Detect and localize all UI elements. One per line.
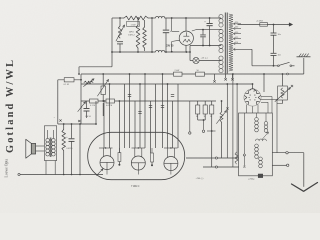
ground — [303, 58, 305, 74]
wire — [112, 17, 124, 19]
terminal — [203, 120, 205, 130]
mains switch S1 — [252, 65, 278, 67]
junction — [209, 17, 211, 19]
wire terminal E — [272, 164, 286, 166]
IF coil L5 (horizontal) — [256, 139, 267, 141]
resistor R14 — [196, 105, 200, 114]
wire bus 3 — [81, 100, 216, 102]
capacitor C5 — [273, 25, 275, 34]
wire — [102, 103, 104, 116]
tube V2 pins — [103, 148, 105, 157]
wire resistor stub — [58, 79, 81, 81]
tube V3 — [131, 156, 145, 170]
capacitor C7b small — [225, 74, 227, 78]
junction — [80, 79, 82, 81]
wire — [221, 101, 223, 112]
wire filament top — [171, 18, 173, 31]
capacitor C4 — [202, 30, 204, 35]
resistor R10 — [90, 99, 99, 103]
wire — [282, 74, 284, 86]
capacitor C13 small — [149, 105, 152, 107]
capacitor C6 — [273, 35, 275, 53]
potentiometer R9 — [102, 74, 104, 86]
dial lamp LA1 — [193, 57, 199, 63]
resistor R8 trimmer — [84, 81, 93, 84]
resistor R16 — [210, 105, 214, 114]
value label 1kW boxed — [127, 22, 140, 27]
wire — [263, 74, 265, 92]
junction — [63, 123, 65, 125]
capacitor C1 — [117, 41, 123, 43]
junction — [63, 174, 65, 176]
IF coil L4 — [264, 122, 268, 126]
wire — [192, 30, 196, 31]
choke L2 — [156, 50, 165, 52]
transformer T1 core — [224, 13, 226, 74]
tick — [59, 119, 61, 121]
capacitor C10 electrolytic — [118, 153, 121, 162]
capacitor C2 electrolytic — [165, 18, 167, 30]
capacitor C3 electrolytic — [209, 18, 211, 23]
wire — [95, 101, 97, 124]
fuse Si1 — [260, 23, 268, 27]
resistor R18 — [235, 152, 238, 164]
wire main bus — [81, 73, 304, 75]
wire — [103, 101, 105, 148]
wire — [129, 74, 131, 148]
wire — [238, 24, 260, 26]
wire — [276, 99, 278, 152]
resistor R6 — [174, 72, 183, 76]
resistor R13 — [63, 124, 65, 130]
tick — [78, 120, 80, 122]
wire — [256, 113, 258, 118]
capacitor C16 small — [171, 94, 174, 96]
transformer T1 primary winding section 2 — [219, 29, 223, 33]
output transformer T2 box — [44, 126, 56, 161]
junction — [273, 24, 275, 26]
capacitor C8 small — [232, 74, 234, 78]
junction — [226, 83, 228, 85]
junction — [137, 17, 139, 19]
chassis outline racetrack — [88, 132, 185, 179]
wire — [36, 145, 45, 147]
wire — [165, 17, 221, 19]
terminal — [287, 73, 289, 75]
IF transformer can outline — [239, 113, 273, 176]
capacitor C11 electrolytic — [151, 153, 154, 162]
wire bottom left bus — [19, 174, 103, 176]
wire — [197, 114, 199, 120]
wire terminal A — [272, 152, 304, 154]
wire — [303, 153, 305, 187]
junction — [111, 51, 113, 53]
AVC arrow — [97, 169, 104, 176]
wire inside can — [243, 113, 245, 166]
wire — [150, 101, 152, 153]
capacitor C17 small — [138, 111, 141, 113]
resistor R7 — [196, 72, 205, 76]
terminal — [18, 173, 20, 175]
wire — [226, 84, 228, 158]
capacitor C7 small — [214, 74, 216, 80]
resistor R11 — [106, 99, 115, 103]
wire — [199, 60, 221, 62]
wire — [148, 17, 155, 19]
wire — [124, 84, 126, 148]
junction — [273, 65, 275, 67]
resistor R1 — [124, 16, 148, 20]
taps with voltage labels — [233, 23, 241, 25]
wire — [165, 51, 187, 53]
tube V4 pins — [166, 148, 168, 157]
wire — [211, 131, 213, 167]
mains arrow — [289, 23, 292, 26]
wire — [177, 84, 179, 148]
wire — [232, 74, 234, 167]
wire — [112, 51, 155, 53]
tube V1 rectifier — [179, 31, 193, 45]
wire socket top — [252, 84, 254, 89]
loudspeaker LS — [31, 143, 35, 154]
wire — [162, 74, 164, 148]
tube V2 — [100, 156, 114, 170]
wire — [111, 18, 113, 67]
wire — [251, 49, 253, 66]
wire — [167, 84, 169, 148]
terminal — [189, 101, 191, 132]
IF coil L7 — [259, 157, 263, 161]
transformer T1 primary winding section 4 — [219, 56, 223, 60]
wire bus 2 — [81, 83, 252, 85]
wire — [58, 123, 96, 125]
resistor R5 — [64, 78, 74, 82]
wire — [172, 101, 174, 148]
wire socket right leads — [261, 96, 272, 98]
IF coil L3 — [255, 118, 259, 122]
earth arrow — [292, 183, 318, 192]
wire — [144, 74, 146, 148]
wire — [151, 18, 153, 52]
terminal — [243, 154, 245, 156]
variable resistor R19 — [278, 86, 288, 100]
wire filament bottom — [171, 42, 173, 52]
resistor R4 — [144, 20, 146, 27]
wire — [79, 124, 81, 175]
junction — [103, 100, 105, 102]
resistor R3 — [137, 18, 139, 25]
wire socket pins to can — [246, 105, 248, 114]
wire — [139, 84, 141, 148]
capacitor C14 small — [161, 105, 164, 107]
tube socket V5 (bottom view) — [244, 89, 261, 106]
wire — [109, 84, 111, 148]
tube V4 — [164, 157, 178, 171]
variable resistor R17 — [220, 112, 223, 122]
junction — [185, 17, 187, 19]
transformer T1 secondary winding — [229, 14, 233, 71]
wire cathode — [185, 45, 187, 52]
wire — [47, 130, 49, 139]
junction — [151, 17, 153, 19]
junction — [263, 73, 265, 75]
transformer T1 primary winding section 3 — [219, 44, 223, 48]
junction — [105, 147, 106, 148]
tap bottom — [233, 48, 252, 50]
potentiometer R12 — [78, 102, 86, 112]
capacitor C9 electrolytic — [86, 101, 88, 108]
wire — [197, 101, 199, 105]
wire anode — [185, 18, 187, 32]
wire enclosure left — [80, 74, 82, 124]
wire — [118, 101, 120, 153]
junction — [211, 130, 213, 132]
wire bus lower — [186, 157, 239, 159]
wire — [155, 84, 157, 148]
coupling arrow — [262, 132, 269, 140]
tick — [243, 166, 245, 168]
wire — [273, 56, 275, 66]
capacitor C15 small — [128, 94, 131, 96]
IF coil L6 — [255, 144, 259, 148]
terminal — [215, 166, 217, 168]
paper texture — [0, 0, 1, 1]
junction — [102, 73, 104, 75]
variable resistor R2 — [119, 18, 121, 26]
wire — [236, 84, 238, 158]
terminal — [215, 157, 217, 159]
wire tube row top — [99, 147, 113, 149]
wire from PSU — [79, 66, 112, 68]
transformer T1 primary winding section 1 — [219, 15, 223, 19]
terminal block — [258, 174, 263, 178]
tube V3 pins — [134, 148, 136, 157]
resistor R15 — [203, 105, 207, 114]
wire — [186, 51, 190, 53]
choke L1 — [156, 16, 165, 18]
wire speaker column — [57, 80, 59, 124]
capacitor C12 electrolytic — [71, 124, 73, 138]
junction — [119, 17, 121, 19]
wire — [134, 101, 136, 148]
wire to mains — [267, 24, 290, 26]
output transformer T2 windings — [46, 139, 50, 143]
